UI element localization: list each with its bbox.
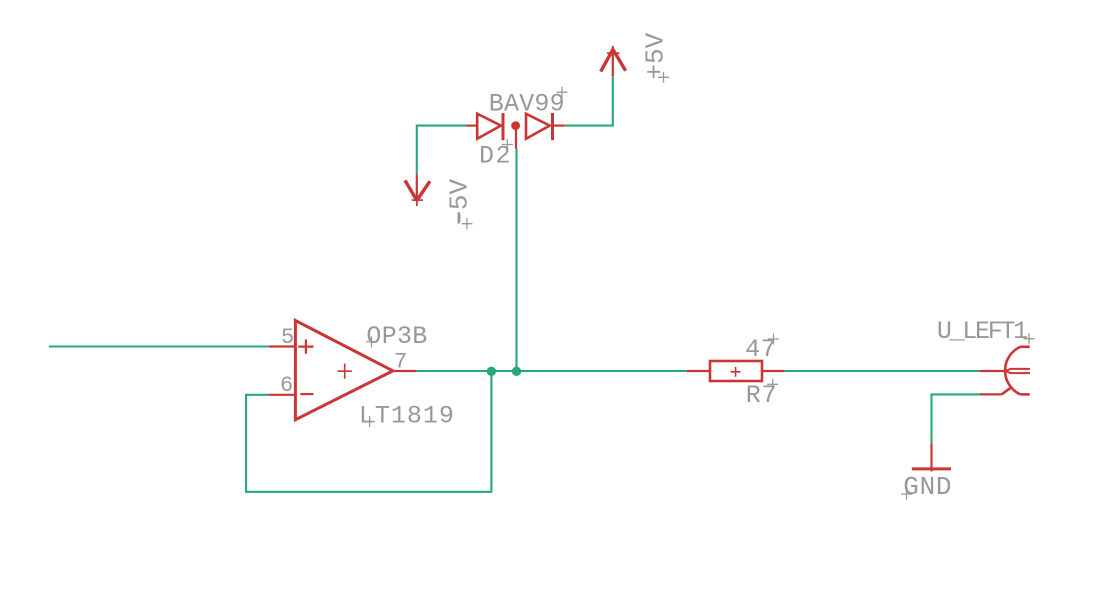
svg-text:U_LEFT1: U_LEFT1 [937, 317, 1027, 346]
svg-text:6: 6 [280, 373, 293, 398]
svg-text:D2: D2 [479, 142, 512, 171]
svg-text:GND: GND [903, 472, 952, 502]
svg-text:LT1819: LT1819 [359, 402, 455, 431]
svg-text:OP3B: OP3B [366, 322, 427, 351]
svg-text:7: 7 [394, 349, 407, 374]
svg-text:5: 5 [281, 325, 294, 350]
svg-text:+5V: +5V [641, 32, 671, 79]
svg-text:47: 47 [745, 335, 777, 364]
svg-text:BAV99: BAV99 [489, 90, 565, 119]
svg-text:R7: R7 [746, 381, 778, 410]
